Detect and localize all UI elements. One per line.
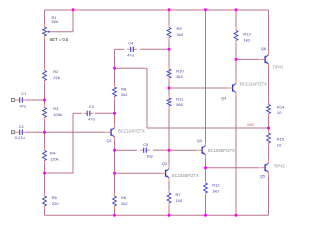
wire R13 to Q6 base node <box>235 44 237 60</box>
wire node A to bootstrap corner <box>45 172 74 174</box>
capacitor C5 10p <box>140 142 154 159</box>
wire R8 to Q1 emitter node <box>114 100 116 114</box>
wire Q3 emitter to node D <box>205 158 207 168</box>
svg-text:Q4: Q4 <box>221 95 227 100</box>
wire C5 line left <box>115 149 138 151</box>
svg-text:R12: R12 <box>212 183 220 188</box>
resistor R15 10 <box>267 130 285 147</box>
wire Q6 base node line <box>236 58 259 60</box>
transistor Q1 BC212AP/ZTX <box>106 124 145 143</box>
resistor R4 120k <box>43 148 59 164</box>
svg-text:R4: R4 <box>50 151 56 156</box>
wire Q2 collector up <box>168 150 170 165</box>
svg-text:Q5: Q5 <box>260 174 266 179</box>
svg-text:2k2: 2k2 <box>121 92 128 97</box>
svg-text:MID: MID <box>247 123 254 127</box>
wire R10 to node C <box>168 81 170 88</box>
transistor Q2 BC182BP/ZTX <box>161 161 200 181</box>
junction Q1 collector / C5 <box>113 149 116 152</box>
svg-text:100k: 100k <box>53 112 62 117</box>
wire C4 node to R10 <box>168 49 170 66</box>
transistor Q4 BC212AP/ZTX <box>221 80 267 100</box>
junction top rail / R13 <box>235 8 238 11</box>
wire Q1 collector node down <box>114 150 116 173</box>
svg-text:R10: R10 <box>176 68 184 73</box>
svg-text:BC182BP/ZTX: BC182BP/ZTX <box>208 148 235 153</box>
wire MID rail <box>147 127 269 129</box>
svg-text:TIP41: TIP41 <box>272 64 284 69</box>
wire Q4 collector down to bottom rail <box>235 96 237 215</box>
potentiometer R1 50k <box>43 15 58 39</box>
wire C5 right to Q2 collector node <box>153 149 169 151</box>
resistor R14 10 <box>267 102 286 117</box>
svg-text:3k3: 3k3 <box>176 74 183 79</box>
wire bottom rail <box>45 214 269 216</box>
wire C4 right to R9 node <box>140 48 169 50</box>
junction top rail / Q3 collector <box>204 8 207 11</box>
junction R6 / bottom rail <box>113 214 116 217</box>
wire feedback vertical <box>146 68 148 128</box>
wire Q2 node to R6 <box>114 173 116 193</box>
svg-text:47u: 47u <box>20 103 27 108</box>
wire R4 to node A <box>44 164 46 194</box>
wire R12 to bottom rail <box>205 196 207 215</box>
svg-text:R8: R8 <box>121 86 127 91</box>
wire Q1 emitter up <box>114 113 116 124</box>
wire Q2 emitter to R7 <box>168 181 170 190</box>
wire C2 input to Q1 base <box>26 131 106 133</box>
svg-text:R14: R14 <box>277 104 285 109</box>
svg-text:3k3: 3k3 <box>177 32 184 37</box>
junction C2 / R3 / R4 / Q1 base <box>43 131 46 134</box>
svg-text:C3: C3 <box>89 104 95 109</box>
svg-text:BC182BP/ZTX: BC182BP/ZTX <box>172 173 199 178</box>
resistor R3 100k <box>43 105 62 121</box>
wire R7 to bottom rail <box>168 206 170 215</box>
wire node C to Q4 base <box>169 87 227 89</box>
resistor R6 2k2 <box>113 193 129 209</box>
svg-text:Q3: Q3 <box>197 138 203 143</box>
svg-text:SET = 0.5: SET = 0.5 <box>50 37 69 42</box>
wire C4 left drop <box>114 49 116 68</box>
junction Q4 collector / bottom rail <box>235 214 238 217</box>
wire Q5 collector to bottom rail <box>268 176 270 216</box>
svg-text:560: 560 <box>176 102 183 107</box>
svg-text:Q2: Q2 <box>162 161 168 166</box>
junction R10 / R11 / Q4 base <box>168 87 171 90</box>
svg-text:R15: R15 <box>277 137 285 142</box>
junction R7 / bottom rail <box>168 214 171 217</box>
wire R5 to bottom rail <box>44 209 46 215</box>
resistor R12 1k0 <box>204 180 221 196</box>
svg-text:2k2: 2k2 <box>121 201 128 206</box>
junction R13 / Q6 base / Q4 emitter <box>235 58 238 61</box>
transistor Q5 TIP42 <box>260 160 286 179</box>
capacitor C2 0.47u <box>15 124 26 140</box>
wire C2 node to R4 <box>44 132 46 147</box>
resistor R8 2k2 <box>113 84 129 100</box>
svg-text:22k: 22k <box>53 75 59 80</box>
svg-text:10: 10 <box>277 110 282 115</box>
junction pot wiper/top rail <box>72 8 75 11</box>
wire node C to R11 <box>168 88 170 95</box>
svg-text:50k: 50k <box>52 19 58 24</box>
wire pot R1 top box <box>44 10 46 24</box>
wire Q6 node to Q4 emitter <box>235 59 237 80</box>
svg-text:R9: R9 <box>177 26 183 31</box>
wire feedback horizontal <box>115 67 148 69</box>
wire C1 node to R3 <box>44 100 46 105</box>
junction C4 / feedback node <box>113 67 116 70</box>
wire Q6 emitter to R14 <box>268 67 270 101</box>
wire C3 left <box>73 112 82 114</box>
wire top rail to Q3 collector <box>205 10 207 142</box>
svg-text:120k: 120k <box>50 156 59 161</box>
capacitor C1 47u <box>16 91 27 108</box>
wire top rail to R13 <box>235 10 237 28</box>
svg-text:Q1: Q1 <box>107 138 113 143</box>
svg-text:47u: 47u <box>127 52 134 57</box>
svg-text:Q6: Q6 <box>261 46 267 51</box>
wire pot wiper to top rail horizontal <box>50 31 73 33</box>
wire right drop to Q6 collector <box>268 10 270 51</box>
wire MID node to R15 <box>268 128 270 130</box>
capacitor C4 47u <box>127 41 137 58</box>
port IN2 (C2 input terminal) <box>12 131 17 134</box>
resistor R13 1k0 <box>234 28 251 44</box>
resistor R5 220 <box>43 193 60 209</box>
junction node A R4/R5/bootstrap <box>43 172 46 175</box>
junction Q3 emitter / R12 / Q5 base <box>204 166 207 169</box>
wire node D to R12 <box>205 168 207 180</box>
net label MID <box>247 123 254 127</box>
wire node A to R5 <box>44 173 46 193</box>
transistor Q6 TIP41 <box>260 46 284 70</box>
svg-text:220: 220 <box>52 201 59 206</box>
svg-text:47u: 47u <box>88 116 95 121</box>
svg-text:R11: R11 <box>176 96 184 101</box>
wire C4 left horizontal <box>115 48 125 50</box>
wire Q3 base line <box>169 149 197 151</box>
svg-text:BC212AP/ZTX: BC212AP/ZTX <box>118 129 145 134</box>
wire C3 right to Q1 emitter node <box>95 112 115 114</box>
svg-text:R6: R6 <box>121 195 127 200</box>
wire R9 to C4 node <box>168 41 170 50</box>
capacitor C3 47u <box>84 104 95 121</box>
wire top rail to R9 <box>168 10 170 25</box>
wire node B to R8 <box>114 68 116 84</box>
wire Q2 base line <box>115 172 161 174</box>
wire pot wiper vertical <box>72 10 74 32</box>
wire R11 down to Q2 collector node <box>168 109 170 150</box>
resistor R2 22k <box>43 68 60 84</box>
junction R12 / bottom rail <box>204 214 207 217</box>
resistor R11 560 <box>167 95 184 109</box>
wire top supply rail <box>45 9 269 11</box>
svg-text:C4: C4 <box>128 41 134 46</box>
wire R3 to C2 node <box>44 121 46 148</box>
junction top rail / R9 <box>168 8 171 11</box>
wire bootstrap vertical <box>72 113 74 173</box>
svg-text:TIP42: TIP42 <box>274 163 286 168</box>
resistor R7 100 <box>167 190 183 206</box>
svg-text:R3: R3 <box>53 106 59 111</box>
wire Q1 collector down <box>114 140 116 150</box>
svg-text:C1: C1 <box>21 91 27 96</box>
wire R1 to R2 <box>44 39 46 68</box>
junction C4 right / R9 / R10 <box>168 48 171 51</box>
wire R6 to bottom rail <box>114 209 116 215</box>
wire R14 to MID node <box>268 117 270 129</box>
svg-text:100: 100 <box>176 198 183 203</box>
svg-text:1k0: 1k0 <box>212 188 219 193</box>
port IN1 (C1 input terminal) <box>12 99 17 102</box>
svg-text:BC212AP/ZTX: BC212AP/ZTX <box>240 82 267 87</box>
junction C3 / R8 / Q1 emitter <box>113 112 116 115</box>
svg-text:C5: C5 <box>143 142 149 147</box>
svg-text:R2: R2 <box>53 69 59 74</box>
junction Q1 collector / Q2 base / R6 <box>113 172 116 175</box>
wire C1 input to node <box>26 99 45 101</box>
svg-text:10p: 10p <box>146 154 153 159</box>
wire R15 to Q5 emitter <box>268 146 270 160</box>
R1 SET value label <box>50 37 69 42</box>
resistor R10 3k3 <box>167 66 184 81</box>
wire R2 to C1 node <box>44 84 46 105</box>
junction C5 / R11 / Q2 collector <box>168 149 171 152</box>
svg-text:10: 10 <box>277 142 282 147</box>
svg-text:0.47u: 0.47u <box>15 135 25 140</box>
transistor Q3 BC182BP/ZTX <box>197 138 236 158</box>
junction MID rail / R14 / R15 <box>267 127 270 130</box>
svg-text:1k0: 1k0 <box>243 37 250 42</box>
resistor R9 3k3 <box>167 25 184 41</box>
svg-text:R7: R7 <box>176 192 182 197</box>
svg-text:R13: R13 <box>243 32 251 37</box>
junction C1 / R2 / R3 <box>43 99 46 102</box>
svg-text:R5: R5 <box>52 195 58 200</box>
svg-text:C2: C2 <box>19 124 25 129</box>
wire node D to Q5 base <box>206 167 260 169</box>
